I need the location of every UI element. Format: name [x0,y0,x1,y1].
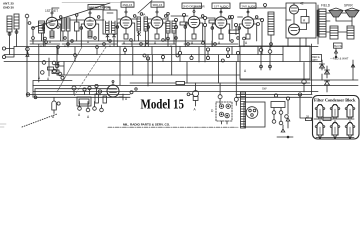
label: 1st IF [121,2,134,7]
svg-text:A: A [303,19,306,23]
svg-text:A: A [38,76,41,80]
ground marks under windings [40,44,172,48]
wire: socket risers and pilot riser [196,47,237,97]
output transformer [317,9,326,37]
wire: output box internals [286,3,307,47]
wire: leads of tube V3 [117,7,134,47]
speaker plug socket [244,102,265,127]
wire: right bottom feed to block [300,95,313,119]
svg-text:A: A [40,44,42,48]
svg-text:GND 30: GND 30 [3,6,14,10]
svg-text:A: A [244,69,247,73]
tube V3 1st IF amp [120,11,132,30]
wire: leads of tube V7 [239,8,256,47]
wire: vertical x318 [312,5,319,94]
condenser C3 [347,105,353,118]
tube V9 output lower [289,24,300,35]
svg-text:—RED & WHT: —RED & WHT [330,56,349,60]
svg-text:A: A [194,108,197,112]
power supply enclosure [240,46,310,79]
wire: vertical x120 to detector tube [119,47,121,85]
node: terminals above detector [130,91,133,94]
svg-text:WHT: WHT [312,59,318,62]
svg-text:SW: SW [262,87,267,91]
condenser C5 [332,123,338,136]
wire: bus y46.5 [14,46,318,48]
wire: leads of tube V5 [185,7,202,47]
tube V8 output upper [290,5,299,14]
node: winding ground terminals [64,37,67,40]
filter condenser block [313,96,360,140]
wire: antenna diagonal lead [32,3,110,28]
wire: leads of tube V1 [43,8,60,47]
power box internal wiring [261,46,300,70]
node: GND binding post [2,55,5,58]
wire: stage bottom tie line y44 [62,43,238,45]
speaker unit 2 [345,8,359,21]
detector tube V10 [107,81,128,102]
wire: bus y61.5 [4,61,312,63]
mid bus terminal nodes [57,46,240,62]
wire: bus y75 [57,74,240,76]
label: RED & WHT box [312,55,322,62]
grid leak R1 [75,14,80,41]
label: ANT GND text block [3,2,14,10]
power wiring cluster [271,93,302,138]
wire: extra vertical droppers [45,41,262,62]
node: extra bus terminals [44,37,47,40]
volume control block [72,84,102,106]
tube V1 1st det [46,12,58,31]
svg-text:A: A [170,44,172,48]
wire: leads of tube V6 [212,8,229,47]
wire: bus y94.5 right [236,94,312,96]
trimmer marks under IF cans [106,34,116,37]
interstage transformer hatched coil [260,12,274,47]
cluster enclosure line [35,89,117,98]
pilot lamp [187,91,199,112]
wire: stage link jogs [58,16,263,20]
svg-text:BLU.W: BLU.W [334,45,342,48]
left cluster extra [57,47,64,75]
wire: mid band verticals [133,47,219,83]
coupling after V6 [229,15,239,34]
tube V5 2nd det [188,11,200,31]
node: driver grid terminals [257,23,260,26]
wire: transformer to speaker links [326,13,352,32]
wire: top horizontal bus y41 [30,40,205,42]
condenser C1 [317,105,323,118]
label: BLU & WHT box [334,43,343,58]
speaker transformer lower [330,26,354,39]
resistor under V5 [191,30,196,45]
tuning box corner [33,81,72,98]
vertical resistors in detector cluster [95,94,99,103]
antenna coil L1 [7,14,19,55]
node: terminals in power box [259,48,263,52]
svg-text:MIL. RADIO PARTS & SERV. CO.: MIL. RADIO PARTS & SERV. CO. [123,123,170,127]
dial cord diagonal 2 dashed [74,47,106,96]
block interconnect wires [306,115,355,139]
svg-text:A: A [144,44,146,48]
field coil winding [241,92,246,128]
svg-text:A: A [245,41,248,45]
wire: stage1 bottom line [30,29,60,44]
tube V4 2nd IF amp [151,11,163,30]
label: 1st audio [212,3,230,8]
resistor under V3 [123,30,128,45]
diode rectifier symbols [302,60,330,92]
condenser C4 [317,123,323,136]
coupling components after V4 [166,12,187,46]
socket box dashed [211,95,238,124]
label: 2nd detector [182,3,205,8]
wire: bus y54.5 [4,54,283,56]
svg-text:A: A [87,115,90,119]
wire: vertical x148 [147,58,149,86]
wire: vertical riser x27 [26,18,28,97]
node: RF section terminals [28,22,31,25]
speaker unit 1 [329,8,343,21]
footnote text with dotted rule [123,123,170,127]
wire: bus y85.5 [33,85,358,87]
wire: leads of tube V2 [81,8,98,47]
svg-text:A: A [109,44,111,48]
node: ANT binding post [2,47,5,50]
label: 2nd IF [151,2,164,7]
filter block bottom wire [316,137,354,139]
RF coil L2 [39,21,45,41]
label: osc [88,5,110,10]
tube V2 osc [84,12,96,31]
node: terminal at 27,16 [25,14,29,18]
left posts leads [6,47,14,58]
svg-text:A: A [64,44,66,48]
svg-text:Model 15: Model 15 [141,98,185,113]
svg-text:D: D [211,109,214,113]
capacitor: cathode bypass under V2 [87,31,92,44]
IF transformer T2 can [102,7,117,46]
IF transformer T3 windings [137,13,148,46]
wire: bus y94.5 left [27,94,130,96]
wire: leads of tube V4 [148,7,165,47]
dotted diagonal lower left [22,114,57,127]
lower resistor nodes [78,102,104,120]
electrolytic condenser with lug [52,97,60,119]
svg-text:Filter Condenser Block: Filter Condenser Block [314,98,356,103]
svg-text:A: A [78,113,81,117]
node: bus end terminals [26,93,29,96]
left mid components cluster [26,44,65,82]
tube V6 1st audio [215,11,227,30]
scan smudge bottom left [0,124,6,127]
wire: bus y97.3 left [35,96,130,98]
condenser C6 [347,123,353,136]
condenser C2 [332,105,338,118]
wire: bus y83 with resistor [130,82,310,84]
wire: bus y91.5 [33,91,318,93]
dial cord diagonal 1 [57,47,82,92]
coupling after V5 [203,16,215,46]
svg-text:1ST DET: 1ST DET [45,9,58,13]
resistor under V6 [218,30,223,45]
output section enclosure [286,3,316,38]
resistor under V4 [154,30,159,45]
svg-text:FIELD: FIELD [321,4,331,8]
resistor under V7 [245,31,250,45]
label: driver [240,3,257,8]
svg-text:SPKR: SPKR [344,4,353,8]
svg-text:42: 42 [300,2,304,6]
wire: bus y80 right [240,79,358,81]
label: A box between output tubes [301,17,309,24]
svg-text:4A: 4A [142,13,146,17]
capacitor: cathode bypass under V1 [49,31,54,44]
tube V7 driver [242,11,254,31]
wire: bus y97.3 right [236,96,312,98]
far right dropper with arrow [351,60,354,80]
IF transformer T1 [62,18,71,47]
